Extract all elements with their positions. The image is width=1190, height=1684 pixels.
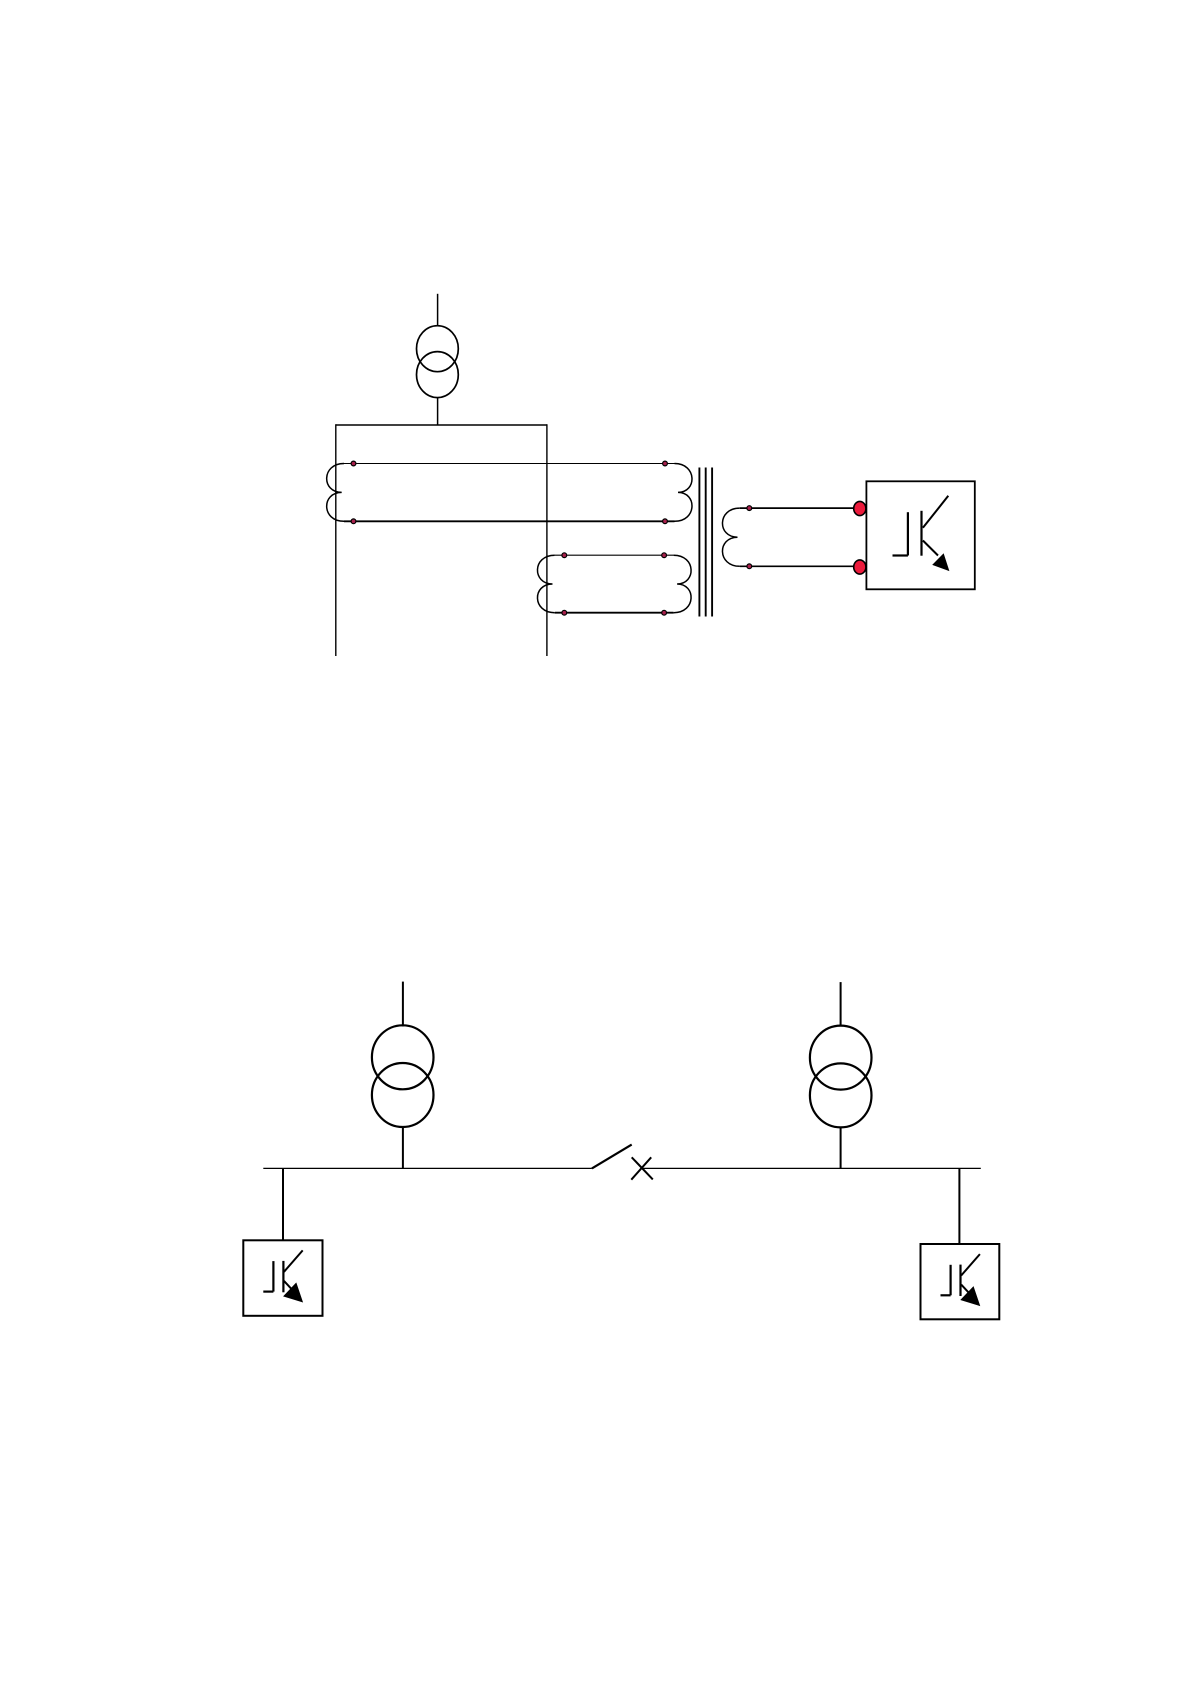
wire: horizontal DC link top bar: [336, 424, 547, 426]
IGBT U3 emitter arrowhead: [961, 1287, 979, 1305]
wire: left bus segment: [263, 1167, 592, 1169]
IGBT U1 gate foot: [893, 554, 908, 556]
IGBT U3 collector lead: [961, 1254, 980, 1275]
wire: feeder stub above transformer T3: [840, 982, 842, 1026]
IGBT U2 gate foot: [263, 1290, 273, 1292]
node dot W1 bottom-right: [663, 519, 668, 524]
switch S1 cross mark: [631, 1157, 653, 1179]
transformer T1 upper circle: [417, 326, 459, 372]
winding W1 right coil: [675, 464, 692, 522]
converter box U2: [243, 1240, 322, 1316]
node dot W1 top-right: [663, 461, 668, 466]
IGBT U3 gate foot: [941, 1294, 951, 1296]
winding W3 (secondary) top conductor: [740, 507, 860, 509]
winding W2 top conductor: [555, 554, 674, 556]
transformer core line 3: [711, 468, 713, 617]
transformer T2 lower circle: [372, 1063, 434, 1127]
IGBT U3 emitter lead: [961, 1285, 970, 1295]
wire: incoming feeder stub above transformer T1: [437, 294, 439, 327]
switch S1 open blade: [592, 1145, 632, 1169]
winding W2 right coil: [674, 555, 691, 613]
IGBT U1 collector lead: [923, 496, 948, 528]
node dot W2 bottom-left: [562, 610, 567, 615]
node dot W2 bottom-right: [662, 610, 667, 615]
wire: T1 secondary stub down to bus rectangle: [437, 398, 439, 426]
IGBT U3 channel bar: [959, 1265, 961, 1296]
transformer core line 2: [705, 468, 707, 617]
transformer T3 upper circle: [810, 1026, 872, 1090]
converter box U1: [866, 481, 974, 589]
transformer T3 lower circle: [810, 1063, 872, 1127]
IGBT U2 collector lead: [284, 1250, 303, 1271]
winding W1 left coil: [327, 464, 344, 522]
node dot W1 top-left: [351, 461, 356, 466]
node dot W2 top-right: [662, 553, 667, 558]
IGBT U1 emitter lead: [923, 541, 938, 556]
node dot W3 bottom: [747, 564, 752, 569]
terminal dot (red) top at converter U1: [854, 501, 866, 515]
transformer T1 lower circle: [417, 352, 459, 398]
IGBT U2 gate bar: [272, 1261, 274, 1292]
IGBT U2 emitter lead: [284, 1281, 293, 1291]
winding W3 (secondary) bottom conductor: [740, 565, 860, 567]
node dot W2 top-left: [562, 553, 567, 558]
converter box U3: [921, 1244, 1000, 1319]
winding W2 left coil: [537, 555, 554, 613]
node dot W1 bottom-left: [351, 519, 356, 524]
IGBT U1 emitter arrowhead: [933, 554, 949, 570]
IGBT U1 gate bar: [907, 512, 909, 555]
wire: right vertical bus bar: [546, 424, 548, 656]
terminal dot (red) bottom at converter U1: [854, 560, 866, 574]
wire: T3 stub down to bus: [840, 1127, 842, 1169]
wire: T2 stub down to bus: [402, 1127, 404, 1169]
winding W3 coil: [722, 508, 739, 566]
transformer core line 1: [698, 468, 700, 617]
node dot W3 top: [747, 506, 752, 511]
IGBT U2 emitter arrowhead: [284, 1283, 302, 1301]
winding W2 bottom conductor: [555, 612, 674, 614]
IGBT U3 gate bar: [949, 1265, 951, 1296]
wire: drop to converter U3: [958, 1168, 960, 1244]
wire: feeder stub above transformer T2: [402, 982, 404, 1027]
wire: right bus segment: [643, 1167, 981, 1169]
winding W1 top conductor: [344, 463, 675, 465]
IGBT U2 channel bar: [282, 1261, 284, 1292]
winding W1 bottom conductor: [344, 520, 675, 522]
wire: drop to converter U2: [282, 1168, 284, 1240]
wire: left vertical bus bar: [335, 424, 337, 656]
transformer T2 upper circle: [372, 1025, 434, 1089]
IGBT U1 channel bar: [920, 511, 922, 556]
